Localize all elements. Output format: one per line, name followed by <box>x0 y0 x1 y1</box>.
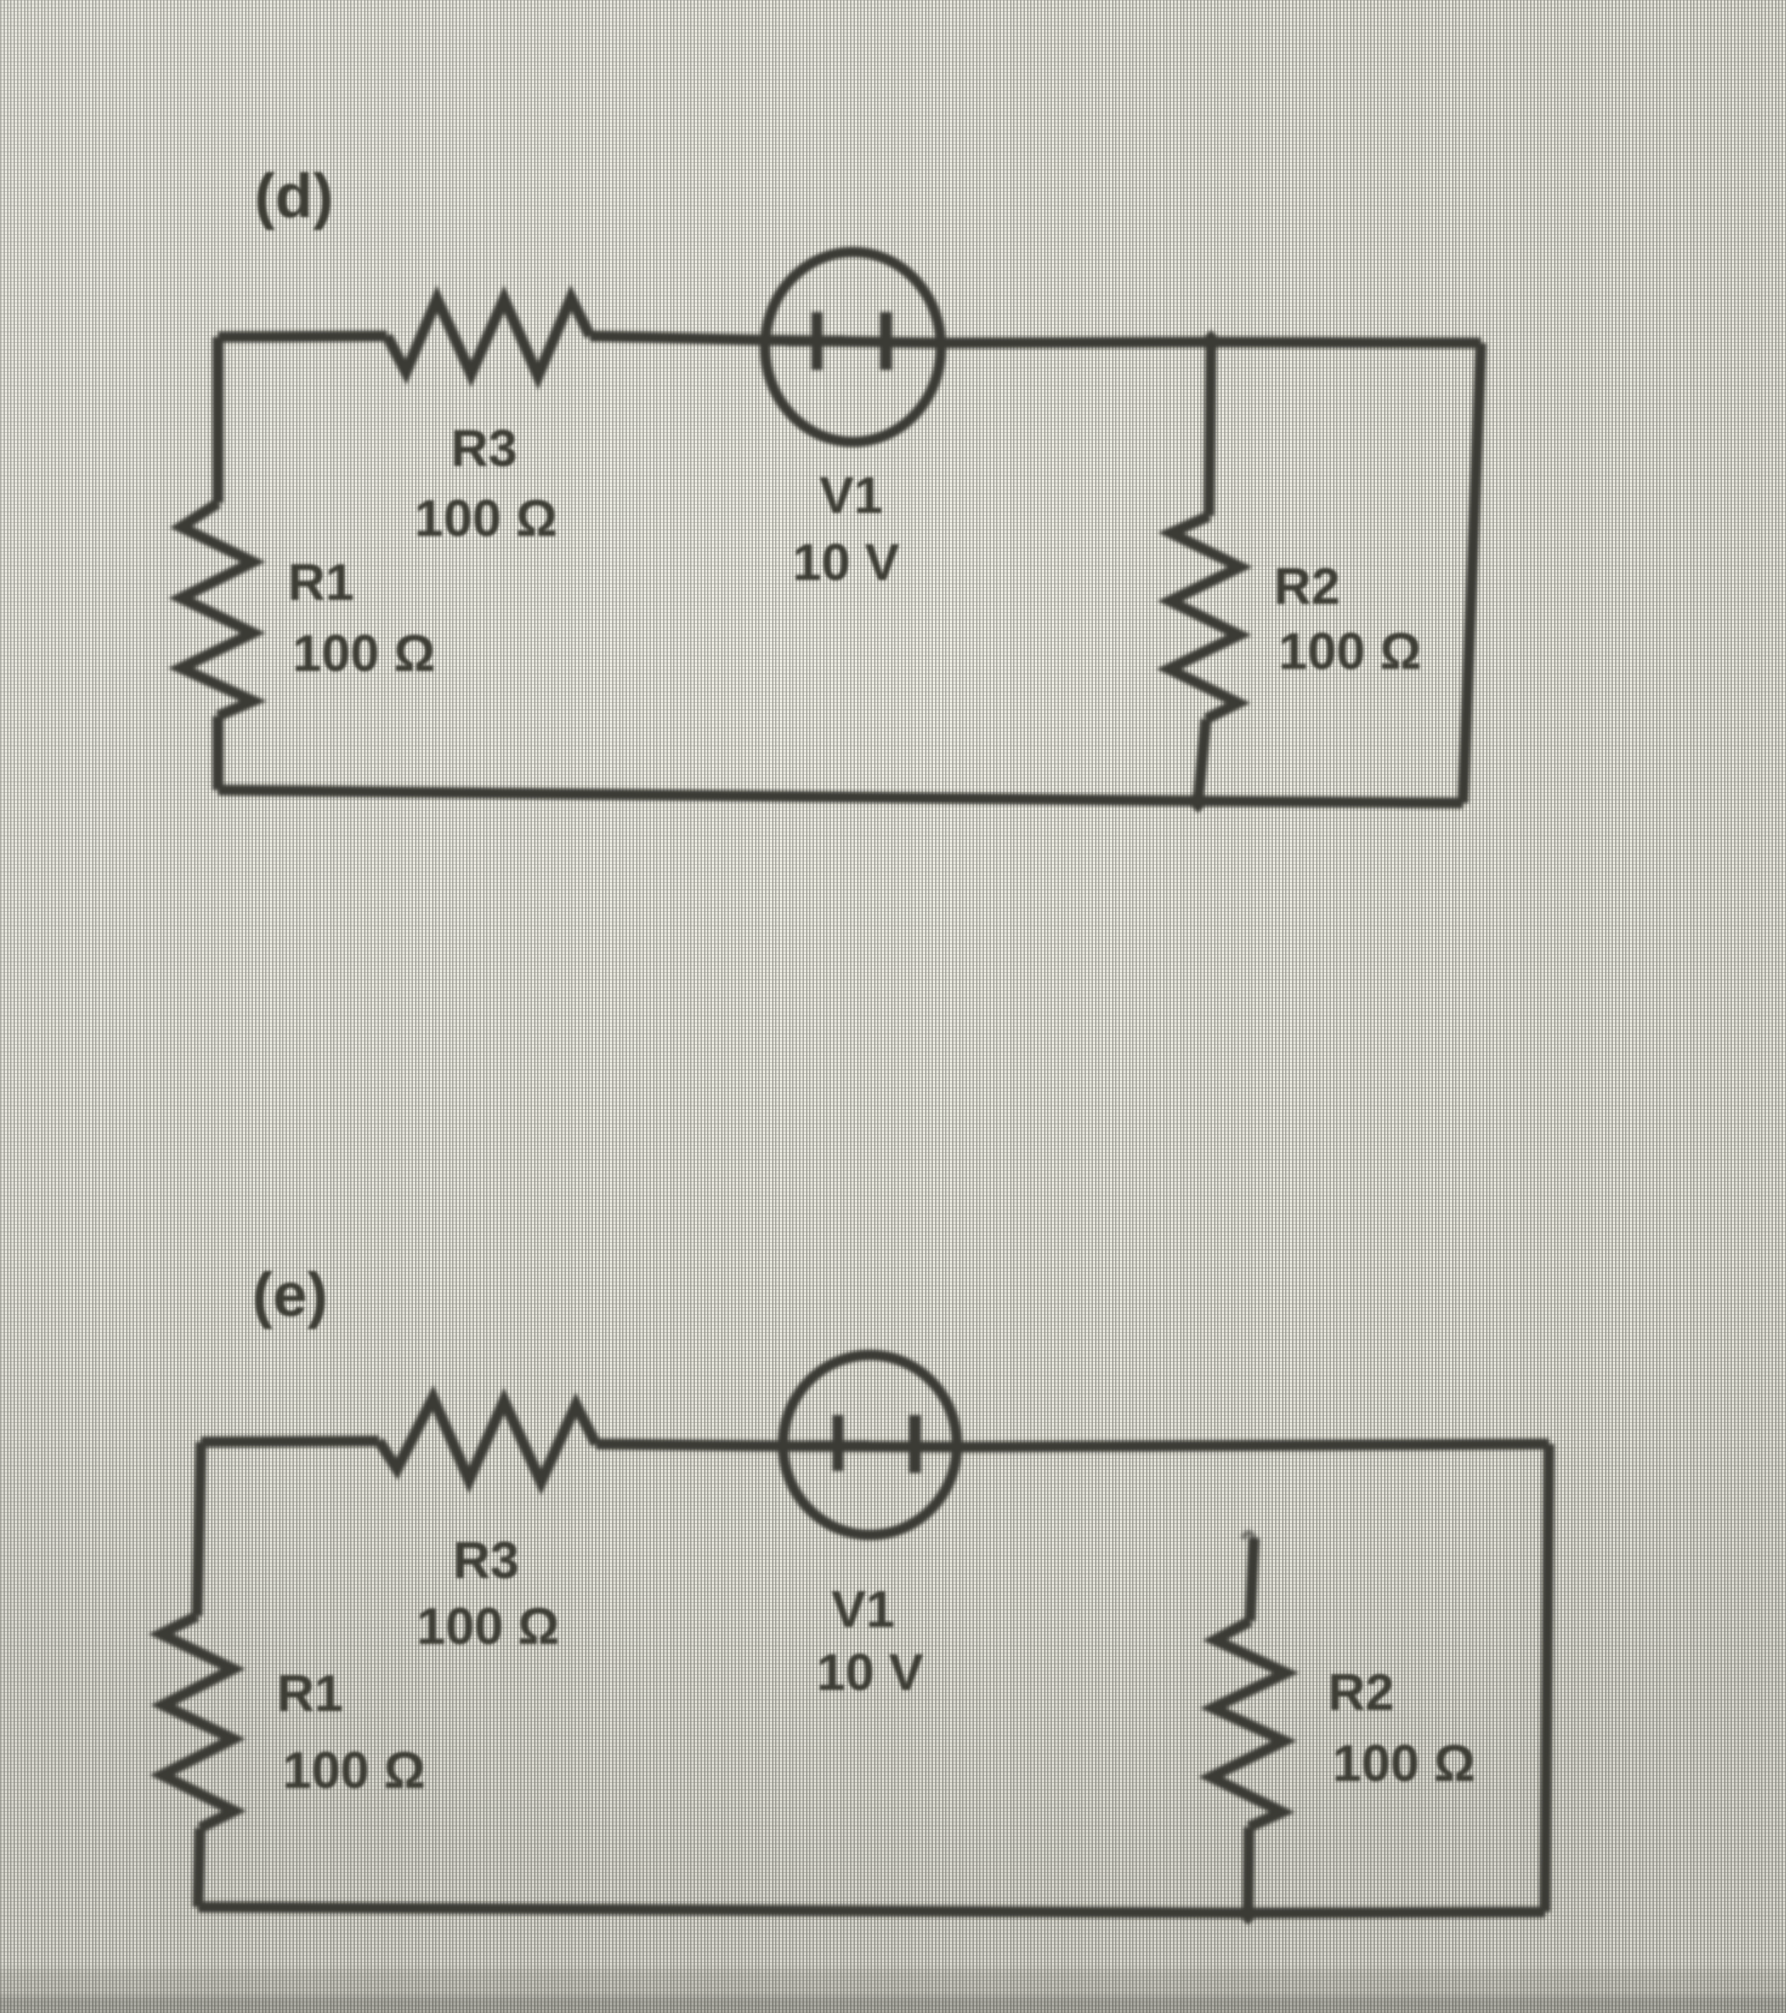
svg-text:(d): (d) <box>254 162 333 231</box>
V1 plus sign vertical (e) <box>833 1415 844 1471</box>
svg-text:R2: R2 <box>1274 558 1340 616</box>
resistor R3 (d) <box>387 298 590 376</box>
svg-text:(e): (e) <box>252 1261 328 1330</box>
svg-text:R3: R3 <box>451 420 517 478</box>
wire e left side lower <box>198 1828 200 1907</box>
wire d top-middle through source to top-right corner <box>590 336 1481 343</box>
svg-text:100 Ω: 100 Ω <box>1279 623 1422 681</box>
svg-text:100 Ω: 100 Ω <box>293 625 436 683</box>
voltage source V1 circle (d) <box>765 252 941 442</box>
voltage source V1 circle (e) <box>783 1355 957 1535</box>
node bottom junction dot (e) <box>1236 1901 1260 1925</box>
wire d left side upper <box>213 337 224 503</box>
svg-text:V1: V1 <box>831 1581 895 1639</box>
resistor R1 (d) <box>181 503 253 716</box>
resistor R3 (e) <box>379 1398 596 1482</box>
wire d right side down <box>1463 343 1481 803</box>
V1 plus sign horizontal thick (d) <box>787 336 845 347</box>
wire e top-left <box>201 1441 379 1442</box>
svg-text:V1: V1 <box>819 467 883 525</box>
open stub hook at top of R2 branch (e) <box>1243 1533 1254 1540</box>
svg-text:100 Ω: 100 Ω <box>415 490 558 548</box>
svg-text:10 V: 10 V <box>817 1644 924 1702</box>
svg-text:100 Ω: 100 Ω <box>1333 1735 1476 1793</box>
svg-text:R3: R3 <box>453 1532 519 1590</box>
node bottom junction dot (d) <box>1186 789 1210 813</box>
svg-text:10 V: 10 V <box>793 534 900 592</box>
svg-text:R2: R2 <box>1328 1664 1394 1722</box>
wire d bottom <box>218 790 1463 803</box>
wire d top-left <box>218 336 387 337</box>
V1 minus bar (d) <box>880 312 892 370</box>
svg-text:100 Ω: 100 Ω <box>417 1598 560 1656</box>
wire d left side lower <box>213 716 224 790</box>
wire e bottom <box>198 1907 1545 1913</box>
wire R2 branch upper lead (d) <box>1209 342 1211 516</box>
wire e left side upper <box>197 1442 201 1616</box>
V1 minus bar (e) <box>909 1415 921 1473</box>
svg-text:100 Ω: 100 Ω <box>283 1742 426 1800</box>
resistor R2 (e) <box>1211 1621 1286 1827</box>
resistor R1 (e) <box>161 1616 234 1828</box>
wire e top-middle through source to top-right corner <box>596 1444 1549 1447</box>
node top junction dot (d) <box>1199 330 1223 354</box>
wire R2 branch upper lead open (e) <box>1250 1538 1254 1621</box>
wire R2 branch lower lead (d) <box>1198 719 1206 801</box>
resistor R2 (d) <box>1169 516 1240 719</box>
V1 plus sign vertical (d) <box>812 312 823 370</box>
svg-text:R1: R1 <box>277 1665 343 1723</box>
wire R2 branch lower lead (e) <box>1248 1827 1249 1913</box>
wire e right side down <box>1545 1444 1549 1912</box>
svg-text:R1: R1 <box>288 554 354 612</box>
V1 plus sign horizontal thick (e) <box>807 1441 869 1452</box>
